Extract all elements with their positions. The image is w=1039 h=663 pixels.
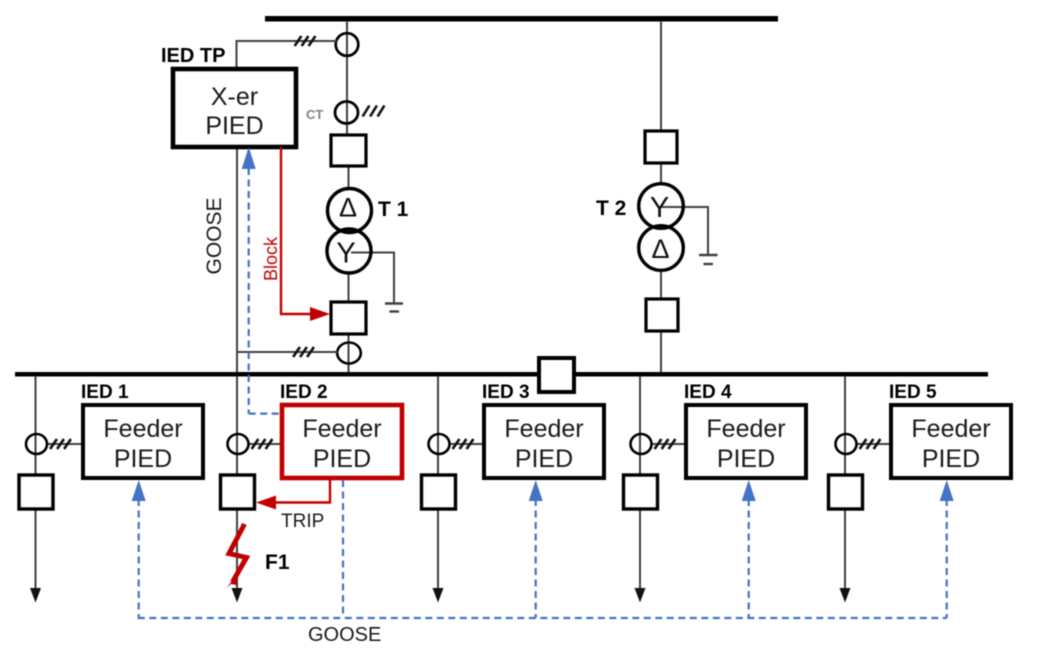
svg-text:PIED: PIED [205,112,263,140]
svg-text:X-er: X-er [211,83,258,111]
svg-text:IED 5: IED 5 [889,382,937,403]
svg-text:Y: Y [336,238,355,270]
svg-text:PIED: PIED [313,445,371,473]
svg-text:GOOSE: GOOSE [308,624,381,646]
svg-text:PIED: PIED [515,445,573,473]
svg-text:Feeder: Feeder [706,415,785,443]
svg-text:PIED: PIED [114,445,172,473]
svg-text:IED TP: IED TP [161,45,225,67]
svg-text:T 1: T 1 [378,198,409,221]
svg-text:T 2: T 2 [596,197,626,220]
svg-text:Feeder: Feeder [103,415,182,443]
svg-text:Δ: Δ [651,234,669,264]
svg-text:PIED: PIED [922,445,980,473]
svg-text:Feeder: Feeder [911,415,990,443]
svg-text:IED 3: IED 3 [482,382,530,403]
svg-text:PIED: PIED [717,445,775,473]
svg-text:F1: F1 [265,551,290,574]
svg-text:IED 2: IED 2 [280,382,328,403]
svg-text:Block: Block [261,236,281,281]
svg-text:IED 4: IED 4 [684,382,732,403]
svg-text:CT: CT [306,107,323,122]
svg-text:IED 1: IED 1 [81,382,129,403]
svg-text:TRIP: TRIP [281,511,324,532]
svg-text:Feeder: Feeder [302,415,381,443]
svg-text:Feeder: Feeder [504,415,583,443]
svg-text:GOOSE: GOOSE [203,197,226,274]
svg-text:Δ: Δ [339,193,357,223]
svg-text:Y: Y [650,192,669,224]
